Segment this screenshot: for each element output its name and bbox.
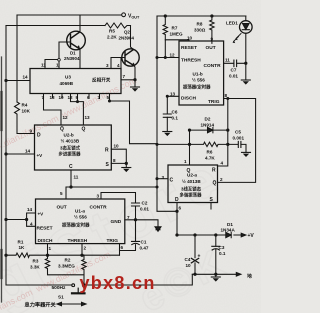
svg-text:D1: D1 [70, 51, 76, 56]
scan edge artifact left [1, 57, 3, 302]
wire U3 pins to U2-b pin13 jog [71, 98, 84, 126]
wire LED cathode down [245, 16, 247, 80]
svg-text:Q: Q [82, 127, 86, 133]
resistor R5 [105, 23, 131, 28]
svg-text:RESET: RESET [37, 226, 53, 232]
svg-text:3态互锁式: 3态互锁式 [60, 145, 81, 152]
svg-text:12: 12 [170, 53, 176, 58]
svg-text:13: 13 [170, 92, 176, 97]
wire Q1 collector to top rail [79, 15, 80, 33]
svg-text:13: 13 [50, 95, 56, 100]
svg-text:12: 12 [68, 95, 74, 100]
svg-text:DISCH: DISCH [181, 96, 196, 102]
capacitor C6 [163, 114, 171, 117]
svg-text:D: D [37, 133, 41, 139]
svg-text:0.01: 0.01 [140, 207, 149, 212]
svg-text:1N34A: 1N34A [221, 228, 236, 233]
svg-text:+V: +V [37, 153, 44, 158]
ground symbol below C3 [215, 274, 217, 277]
resistor R6 4.7K in long net line [157, 142, 238, 146]
arrow +V terminal [237, 234, 243, 236]
svg-text:R4: R4 [22, 103, 28, 108]
svg-text:11: 11 [41, 63, 46, 68]
svg-text:LED1: LED1 [226, 21, 238, 26]
arrow ground terminal [236, 273, 241, 277]
svg-text:TRIG: TRIG [107, 238, 119, 244]
transistor Q2 2N3904 [122, 49, 139, 66]
svg-text:3.3K: 3.3K [30, 265, 40, 270]
svg-text:地: 地 [247, 273, 252, 280]
svg-text:R: R [212, 168, 216, 174]
svg-text:R7: R7 [172, 26, 178, 31]
svg-text:R3: R3 [33, 259, 39, 264]
svg-text:7: 7 [127, 215, 130, 220]
svg-text:0.001: 0.001 [233, 136, 245, 141]
svg-text:½ 4013B: ½ 4013B [182, 178, 201, 184]
wire bottom y255 with resistor R1 1K [6, 253, 120, 257]
wire U2-b +V pin14 [6, 153, 35, 155]
svg-text:OUT: OUT [206, 45, 216, 51]
resistor R4 [15, 102, 20, 115]
svg-text:4069B: 4069B [60, 81, 74, 86]
wire U1-a DISCH pin1 stub [47, 244, 49, 256]
svg-text:U2-b: U2-b [64, 133, 74, 138]
svg-text:DISCH: DISCH [38, 238, 53, 244]
svg-text:0.1: 0.1 [219, 251, 226, 256]
svg-text:Q2: Q2 [124, 30, 130, 35]
svg-text:6: 6 [87, 95, 90, 100]
svg-text:C1: C1 [141, 240, 147, 245]
svg-text:C6: C6 [172, 110, 178, 115]
svg-text:1MEG: 1MEG [170, 32, 183, 37]
svg-text:R: R [105, 148, 109, 154]
svg-text:Q̅: Q̅ [212, 180, 216, 187]
wire left rail vertical [5, 26, 7, 286]
svg-text:10K: 10K [22, 109, 31, 114]
svg-text:3.3MEG: 3.3MEG [58, 264, 75, 269]
svg-text:2: 2 [84, 246, 87, 251]
svg-text:1: 1 [184, 159, 187, 164]
capacitor C4 10 [194, 235, 196, 258]
wire C6 to ground [166, 117, 168, 131]
svg-text:3线互锁态: 3线互锁态 [181, 186, 202, 193]
switch S1 contacts [72, 284, 75, 287]
svg-text:D2: D2 [205, 117, 211, 122]
svg-text:步进振荡器: 步进振荡器 [59, 151, 82, 158]
IC U2-a 4013 box [168, 165, 218, 203]
svg-text:ybx8.cn: ybx8.cn [80, 273, 156, 293]
svg-text:C3: C3 [219, 245, 225, 250]
svg-text:D1: D1 [227, 222, 233, 227]
diode D1 [226, 232, 231, 237]
wire U3 bottom pin stubs [44, 94, 110, 102]
svg-text:3: 3 [97, 194, 100, 199]
svg-text:0.47: 0.47 [140, 246, 149, 251]
svg-text:10: 10 [187, 36, 193, 41]
svg-text:息力率器开关: 息力率器开关 [25, 301, 57, 309]
svg-text:½ 556: ½ 556 [192, 77, 205, 83]
svg-text:4: 4 [221, 161, 224, 166]
svg-text:13: 13 [85, 115, 91, 120]
ground below Q2 [131, 86, 140, 88]
svg-text:4: 4 [30, 222, 33, 227]
wire U1-a GND pin7 right [125, 220, 158, 227]
wire Q1 emitter down to U3 top [79, 49, 80, 69]
svg-text:+: + [198, 254, 201, 260]
IC U2-b 4013 box [35, 125, 112, 170]
wire U3 pin7 to emitter line [121, 79, 135, 81]
svg-text:R1: R1 [18, 240, 24, 245]
svg-text:6: 6 [121, 245, 124, 250]
svg-text:2: 2 [220, 177, 223, 182]
svg-text:3: 3 [162, 175, 165, 180]
svg-text:11: 11 [225, 58, 230, 63]
wire U1-b DISCH pin13 to C6 [167, 96, 179, 114]
svg-text:THRESH: THRESH [68, 238, 88, 244]
wire U3 pin to U2-b pin12 jog [44, 98, 62, 126]
IC U1-b 556 box [179, 41, 224, 105]
svg-text:9: 9 [76, 95, 79, 100]
svg-text:7: 7 [42, 95, 45, 100]
svg-text:Q̅: Q̅ [60, 126, 64, 133]
svg-text:R2: R2 [65, 258, 71, 263]
resistor R8 330 [210, 16, 214, 43]
svg-text:3: 3 [106, 63, 109, 68]
wire U1-a CONTR pin3 to C2 [101, 193, 136, 204]
svg-text:½ 556: ½ 556 [74, 214, 87, 220]
ground below C6 [163, 131, 172, 133]
wire +V output line y235 with diode D1 1N34A [177, 234, 237, 236]
caption double arrow [60, 303, 83, 305]
svg-text:R8: R8 [197, 22, 203, 27]
svg-text:振荡器/定时器: 振荡器/定时器 [183, 84, 211, 91]
svg-text:C7: C7 [231, 68, 237, 73]
svg-text:12: 12 [63, 115, 69, 120]
wire U1-b THRESH pin12 [157, 57, 179, 59]
wire U1-b TRIG pin8 right and down [218, 99, 256, 183]
wire D2 R6 right vertical [218, 99, 228, 167]
svg-text:CONTR: CONTR [90, 205, 108, 211]
svg-text:C4: C4 [185, 257, 191, 262]
svg-text:C2: C2 [142, 201, 148, 206]
svg-text:7: 7 [123, 74, 126, 79]
svg-text:½ 4013B: ½ 4013B [61, 138, 80, 144]
svg-text:5: 5 [60, 191, 63, 196]
svg-text:反相开关: 反相开关 [92, 77, 111, 84]
svg-text:D: D [175, 197, 179, 203]
capacitor C1 0.047 [132, 220, 140, 245]
svg-text:THRESH: THRESH [181, 58, 201, 64]
svg-text:多谐振荡器: 多谐振荡器 [180, 192, 203, 199]
resistor R7 1MEG [163, 16, 167, 40]
capacitor C3 0.1 [215, 235, 217, 246]
svg-text:1K: 1K [19, 245, 26, 250]
svg-text:4: 4 [117, 63, 120, 68]
IC U1-a 556 box [36, 199, 125, 244]
wire long vertical x157 [157, 16, 177, 211]
wire U2-b C pin11 down [70, 170, 72, 187]
resistor R3 3.3K [45, 255, 84, 275]
wire U3 pin14 +V [6, 80, 30, 82]
svg-text:+V: +V [38, 212, 45, 217]
svg-text:14: 14 [27, 207, 33, 212]
svg-text:4.7K: 4.7K [205, 156, 215, 161]
wire U1-a +V pin14 / RESET pin4 tie [6, 213, 36, 226]
svg-text:8: 8 [113, 158, 116, 163]
wire U2-a C pin3 tap [157, 178, 168, 180]
resistor R2 3.3MEG [82, 255, 86, 285]
svg-text:5: 5 [107, 95, 110, 100]
svg-text:U1-a: U1-a [75, 209, 85, 214]
svg-text:S1: S1 [58, 295, 64, 300]
svg-text:OUT: OUT [57, 205, 67, 211]
svg-text:11: 11 [74, 175, 79, 180]
wire U3 pin5 jog to right net [110, 101, 158, 144]
svg-text:330Ω: 330Ω [194, 28, 206, 33]
svg-text:10: 10 [186, 263, 192, 268]
IC U3 4069 box [30, 69, 121, 94]
capacitor C5 0.001 [238, 141, 241, 147]
svg-text:14: 14 [25, 149, 31, 154]
diode D2 1N914 [190, 129, 228, 131]
wire U1-b CONTR pin11 and C7 [224, 62, 246, 64]
wire U2-b S pin8 [111, 162, 126, 164]
wire left V+ rail y25 [6, 25, 105, 27]
wire top V_OUT rail [17, 14, 122, 16]
wire bottom S1 line [6, 274, 192, 285]
transistor Q1 2N3904 [67, 31, 86, 50]
svg-text:RESET: RESET [181, 45, 197, 51]
ground below U2-b pin8 [122, 167, 131, 169]
svg-text:10: 10 [59, 95, 65, 100]
svg-text:0.1: 0.1 [172, 116, 179, 121]
svg-text:1: 1 [49, 246, 52, 251]
svg-text:0.01: 0.01 [229, 74, 238, 79]
wire U2-a S pin stub [210, 203, 212, 210]
wire U1-a TRIG pin6 stub [119, 244, 121, 256]
ground arrow at GND7 [155, 227, 161, 232]
wire D2 R6 left vertical to U2-a Q pin1 [189, 130, 191, 165]
svg-text:U3: U3 [65, 75, 71, 80]
svg-text:1N914: 1N914 [201, 123, 215, 128]
ground below LED [241, 79, 250, 81]
capacitor C2 0.01 [132, 203, 140, 206]
svg-text:500Hz: 500Hz [52, 285, 66, 291]
svg-text:14: 14 [23, 75, 29, 80]
svg-text:GND: GND [111, 219, 122, 225]
wire R4 to U2-b D pin 9 [17, 115, 35, 134]
wire U2-a D pin down to +V line [176, 203, 178, 236]
wire Q2 emitter to ground [134, 66, 135, 88]
svg-text:C: C [170, 178, 174, 184]
svg-text:CONTR: CONTR [204, 63, 222, 69]
svg-text:3: 3 [98, 95, 101, 100]
svg-text:2N3904: 2N3904 [119, 36, 135, 41]
LED LED1 [240, 21, 253, 34]
wire U1-a OUT pin5 up and right to U2-a C [66, 187, 157, 199]
svg-text:9: 9 [211, 37, 214, 42]
wire V_OUT rail left corner down to R4 [16, 15, 18, 102]
wire U2-b R pin10 [111, 149, 126, 163]
svg-text:9: 9 [30, 129, 33, 134]
wire Q2 base from U3 pins 3,4 [111, 58, 125, 69]
wire Q1 base to U3 pins 11,1 [45, 42, 71, 69]
svg-text:6: 6 [179, 206, 182, 211]
svg-text:C: C [69, 164, 73, 170]
svg-text:R6: R6 [207, 150, 213, 155]
capacitor C7 [234, 60, 237, 67]
svg-text:1: 1 [56, 63, 59, 68]
svg-text:+V: +V [248, 233, 255, 239]
wire Q2 collector to R5 [131, 26, 134, 50]
svg-text:R5: R5 [109, 29, 115, 34]
svg-text:8: 8 [225, 93, 228, 98]
ground below C5 [242, 151, 251, 153]
wire U1-a THRESH pin2 stub [81, 244, 83, 256]
svg-text:2.2K: 2.2K [107, 35, 117, 40]
svg-text:U1-b: U1-b [193, 72, 203, 77]
svg-text:TRIG: TRIG [208, 99, 220, 105]
wire bottom ground line y274 [192, 273, 236, 275]
svg-text:振荡器/定时器: 振荡器/定时器 [62, 222, 90, 229]
wire top right +V rail [157, 15, 246, 17]
svg-text:2N3904: 2N3904 [64, 56, 80, 61]
wire R7 bottom to RESET pin10 and THRESH [165, 40, 189, 58]
node V_OUT terminal [122, 13, 126, 17]
svg-text:10: 10 [114, 144, 120, 149]
svg-text:C5: C5 [235, 130, 241, 135]
switch S1 toggle handle [77, 288, 79, 293]
svg-text:U2-a: U2-a [187, 173, 197, 178]
